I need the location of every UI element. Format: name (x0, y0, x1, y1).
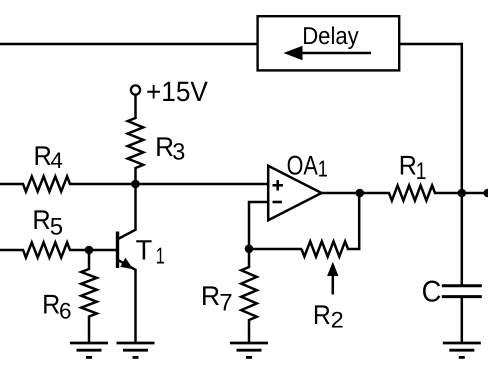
wire: feedback node to R2 (249, 248, 302, 251)
svg-text:1: 1 (156, 242, 165, 268)
op-amp - input marking (273, 201, 282, 204)
resistor R5 (23, 242, 70, 257)
svg-text:R: R (313, 300, 331, 330)
transistor T1: emitter arrow (120, 258, 133, 270)
node: R3/R4/collector junction (131, 180, 140, 189)
svg-text:1: 1 (318, 156, 328, 182)
node: base/R6 junction (85, 246, 94, 255)
arrow inside delay box (pointing left) (299, 52, 371, 55)
svg-text:R: R (34, 141, 52, 171)
wire: R1 to right edge (434, 192, 488, 195)
svg-text:3: 3 (172, 139, 185, 165)
svg-text:7: 7 (219, 289, 232, 316)
ground under R7 (230, 342, 268, 345)
wire: R3 to node (134, 167, 137, 184)
svg-text:OA: OA (287, 151, 318, 181)
svg-text:5: 5 (50, 213, 63, 240)
node: inverting input / R7 / R2 junction (245, 245, 254, 254)
ground under C (443, 342, 481, 345)
wire: node to R7 (248, 249, 251, 268)
node: output/feedback junction (356, 189, 365, 198)
wire: emitter to ground (134, 269, 137, 343)
ground under R6 (70, 342, 108, 345)
svg-text:T: T (136, 234, 153, 265)
svg-text:C: C (422, 276, 442, 309)
wire: - input to feedback node (249, 202, 269, 249)
capacitor C top plate (442, 284, 482, 287)
resistor R3 (128, 118, 144, 168)
wire: node to capacitor C (461, 193, 464, 285)
node at right edge (clipped) (483, 189, 488, 198)
svg-text:2: 2 (331, 308, 344, 333)
wire: delay box output, right side, down to output node (399, 44, 462, 190)
wire: capacitor to ground (461, 298, 464, 344)
svg-text:R: R (399, 151, 417, 181)
transistor T1: collector lead (117, 229, 137, 240)
wire: main input line (left edge to op-amp + input) (0, 183, 24, 186)
ground under T1 emitter (117, 342, 155, 345)
wire: collector to node (134, 184, 137, 230)
svg-text:R: R (32, 205, 50, 235)
wire: R2 to output node (347, 193, 359, 249)
+15V supply terminal (131, 85, 140, 94)
wire: op-amp output to R1 (320, 192, 390, 195)
transistor T1: base bar (116, 232, 119, 269)
arrow pointing at R2 wiper (332, 275, 335, 295)
capacitor C bottom plate (442, 295, 482, 298)
svg-text:6: 6 (59, 298, 72, 323)
svg-text:Delay: Delay (302, 23, 359, 50)
svg-text:1: 1 (416, 158, 427, 185)
resistor R4 (23, 176, 70, 191)
node: R1/delay/C junction (458, 189, 467, 198)
wire: R7 to ground (248, 319, 251, 343)
wire: +15V terminal to R3 (134, 95, 137, 119)
svg-text:+15V: +15V (146, 76, 208, 107)
svg-text:R: R (42, 290, 60, 320)
resistor R2 (302, 241, 349, 256)
delay block (258, 16, 400, 70)
wire: input line to Delay box (top-left) (0, 43, 259, 46)
resistor R1 (389, 185, 435, 200)
wire: node to R6 (88, 250, 91, 270)
svg-text:4: 4 (50, 148, 63, 173)
resistor R6 (81, 269, 97, 317)
svg-text:R: R (155, 132, 174, 162)
op-amp + input marking (273, 184, 283, 187)
op-amp OA1 body (268, 166, 321, 220)
wire: R6 to ground (88, 316, 91, 344)
resistor R7 (241, 267, 257, 320)
wire: R5 input line (left edge to T1 base) (0, 249, 24, 252)
svg-text:R: R (201, 281, 220, 311)
transistor T1: emitter lead (117, 259, 137, 270)
